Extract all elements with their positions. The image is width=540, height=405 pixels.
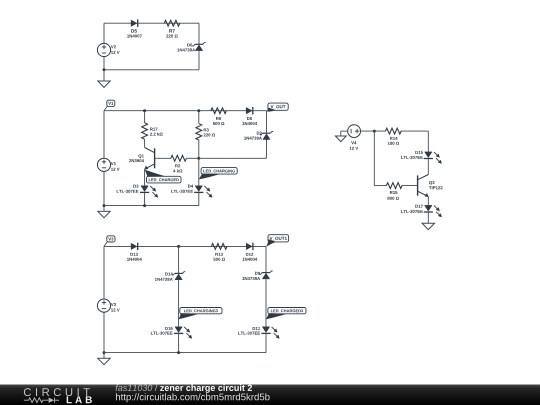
wire D2 to V_OUT [266, 111, 268, 134]
label R8 [216, 117, 221, 120]
wire Q1 base to R2 [155, 157, 171, 159]
resistor R15 [386, 183, 402, 189]
net flag LED_CHARGING [201, 168, 237, 175]
wire V2 to bottom rail [103, 57, 105, 70]
wire D4 to bottom rail [198, 192, 200, 205]
label D15 [415, 151, 422, 154]
wire Q1 emitter branch [144, 169, 146, 186]
wire V3 to bottom rail [103, 312, 105, 352]
label D2 [257, 132, 262, 135]
label D17 [415, 205, 422, 208]
voltage source V1 [97, 158, 110, 171]
wire top rail circuit1 [104, 22, 199, 24]
label V1 value [111, 162, 116, 165]
wire ground stub circuit1 [103, 70, 105, 81]
wire node to D2 bottom [199, 157, 267, 159]
LED D4 [195, 186, 202, 192]
ground circuit2 [98, 211, 110, 217]
wire Q3 emitter to D17 [427, 197, 429, 206]
ground Q3 emitter [422, 223, 434, 229]
net flag LED_CHARGED3 [268, 308, 306, 314]
resistor R7 [164, 20, 180, 26]
resistor R17 [144, 111, 146, 123]
LED D16 [175, 327, 182, 333]
wire left branch circuit4 [103, 246, 105, 299]
label D3 [133, 185, 138, 188]
wire D11 to bottom rail [265, 333, 267, 352]
wire left branch circuit2 [103, 111, 105, 159]
wire bottom rail circuit2 [104, 205, 199, 207]
label D14 [165, 273, 173, 276]
label D6 [187, 43, 192, 46]
wire top rail circuit2 [104, 110, 267, 112]
node flag V1 [107, 100, 115, 106]
label R3 [204, 128, 209, 131]
node junction R2 R3 D2 [197, 157, 200, 160]
node flag V3 [107, 236, 115, 242]
wire D17 to ground [427, 212, 429, 223]
LED D15 [425, 152, 432, 158]
wire ground stub circuit2 [103, 206, 105, 212]
node junction V4 R15 [373, 130, 376, 133]
footer title text [116, 384, 153, 391]
node junction D16 bottom [177, 351, 180, 354]
label R15 [390, 191, 397, 194]
LED D3 [141, 186, 148, 192]
resistor R8 [211, 108, 227, 114]
wire bottom rail circuit4 [104, 352, 266, 354]
logo schematic doodle [24, 398, 59, 403]
wire D2 branch vertical [266, 139, 268, 158]
label R17 [150, 128, 157, 131]
ground circuit4 [98, 358, 110, 364]
resistor R13 [211, 244, 227, 250]
wire V1 to bottom rail [103, 171, 105, 205]
zener diode D14 [175, 272, 183, 274]
node junction D3 bottom [143, 204, 146, 207]
label V3 value [111, 303, 116, 306]
label D8 [247, 117, 252, 120]
wire D9 to D11 [265, 279, 267, 327]
voltage source V2 [97, 43, 110, 56]
wire R2 to node [186, 157, 199, 159]
wire D14 to D16 [178, 280, 180, 327]
label V4 value [351, 141, 356, 144]
wire top rail circuit4 [104, 245, 266, 247]
footer url text [116, 393, 270, 402]
diode D12 [246, 243, 252, 249]
node junction R3 top [197, 109, 200, 112]
net flag LED_CHARGING3 [180, 308, 222, 314]
wire right branch circuit1 [198, 23, 200, 44]
LED D17 [425, 205, 432, 211]
wire rail to D9 [265, 246, 267, 272]
label D11 [253, 327, 260, 330]
zener diode D9 [262, 272, 270, 274]
transistor Q1 [154, 148, 156, 168]
wire D16 to bottom rail [178, 333, 180, 352]
node junction circuit4 bottom left [103, 351, 106, 354]
diode D13 [131, 243, 137, 249]
voltage source V4 [348, 125, 361, 138]
logo LAB text [67, 396, 92, 403]
wire R15 branch [373, 131, 375, 186]
label R2 [175, 164, 180, 167]
label Q3 [429, 181, 434, 185]
node junction circuit2 bottom left [103, 204, 106, 207]
resistor R3 [198, 111, 200, 124]
zener diode D2 [263, 132, 271, 134]
label D12 [246, 253, 253, 256]
net flag LED_CHARGED [147, 176, 182, 183]
ground V4 [335, 136, 346, 142]
diode D8 [246, 108, 252, 114]
wire D6 to bottom rail [198, 51, 200, 70]
label D5 [131, 29, 137, 32]
wire R15 to Q3 base [402, 185, 418, 187]
label Q1 [138, 154, 143, 158]
ground circuit1 [98, 81, 110, 87]
wire R14 to D15 [401, 130, 429, 132]
diode D5 [131, 20, 137, 26]
wire rail to D14 [178, 246, 180, 273]
logo CIRCUIT text [24, 388, 90, 396]
transistor Q3 [417, 175, 419, 195]
LED D11 [262, 327, 269, 333]
wire ground stub circuit4 [103, 353, 105, 359]
wire R3 node to D4 [198, 158, 200, 186]
node flag V_OUT1 [268, 235, 289, 242]
node flag V_OUT [268, 103, 288, 110]
node junction R17 top [143, 109, 146, 112]
wire V4 to ground [341, 130, 348, 132]
label D9 [255, 272, 260, 275]
resistor R14 [386, 128, 402, 134]
label D16 [165, 327, 172, 330]
wire D15 to Q3 collector [427, 159, 429, 175]
label R7 [169, 29, 175, 32]
wire bottom rail circuit1 [104, 69, 199, 71]
label R14 [390, 137, 398, 140]
label D13 [130, 253, 137, 256]
label R13 [215, 253, 222, 256]
zener diode D6 [195, 43, 203, 45]
wire V4 to R14 [361, 130, 386, 132]
wire D3 to bottom rail [144, 192, 146, 205]
node junction D14 top [177, 245, 180, 248]
label D4 [188, 185, 193, 188]
node junction circuit1 bottom [103, 68, 106, 71]
voltage source V3 [97, 299, 110, 312]
resistor R2 [171, 155, 187, 161]
label V2 value [111, 45, 116, 48]
wire left branch circuit1 [103, 23, 105, 43]
